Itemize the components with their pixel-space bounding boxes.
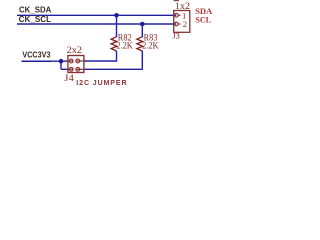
net label CK_SDA	[19, 5, 52, 14]
label R83	[144, 34, 158, 44]
J3 pin 2 number	[183, 19, 187, 29]
wire R83 bottom to J4 pin 4	[84, 51, 143, 70]
connector J3 body	[174, 11, 190, 33]
junction node on CK_SDA	[114, 13, 119, 18]
cropped label fragment above J3	[174, 0, 179, 1]
port label SDA	[195, 6, 213, 16]
junction node VCC3V3	[59, 59, 64, 64]
wire VCC3V3 to J4 pin 1	[52, 60, 69, 62]
svg-text:2: 2	[183, 19, 187, 29]
svg-text:2.2K: 2.2K	[142, 42, 159, 52]
svg-text:I2C JUMPER: I2C JUMPER	[76, 80, 126, 87]
value 2.2K (R83)	[142, 42, 159, 52]
wire from CK_SDA down to R82	[116, 15, 118, 37]
junction node on CK_SCL	[140, 22, 145, 27]
label 2x2 (J4)	[67, 46, 83, 56]
connector J4 body	[68, 56, 84, 73]
svg-text:SCL: SCL	[195, 15, 211, 25]
J3 pin 1	[174, 13, 180, 17]
wire R82 bottom to J4 pin 2	[84, 51, 117, 61]
svg-text:J4: J4	[64, 73, 74, 83]
svg-text:VCC3V3: VCC3V3	[22, 51, 51, 60]
label J4	[64, 73, 74, 83]
label I2C JUMPER	[76, 80, 126, 87]
label R82	[118, 34, 132, 44]
svg-text:1x2: 1x2	[175, 1, 190, 11]
port label SCL	[195, 15, 211, 25]
wire CK_SCL	[17, 23, 176, 25]
wire from CK_SCL down to R83	[141, 24, 143, 37]
svg-text:J3: J3	[172, 31, 180, 40]
J3 pin 1 number	[182, 11, 186, 21]
J4 pin 1	[68, 59, 73, 63]
wire CK_SDA	[17, 14, 176, 16]
svg-text:CK_SCL: CK_SCL	[19, 15, 52, 24]
label J3	[172, 31, 180, 40]
value 2.2K (R82)	[116, 42, 133, 52]
J4 pin 3	[68, 67, 73, 71]
resistor R83	[137, 37, 143, 51]
J4 pin 4	[76, 67, 84, 71]
net label CK_SCL	[19, 15, 52, 24]
resistor R82	[111, 37, 117, 51]
wire junction down to J4 pin 3	[61, 61, 68, 69]
power symbol VCC3V3	[22, 51, 52, 62]
J3 pin 2	[174, 22, 180, 26]
svg-text:2.2K: 2.2K	[116, 42, 133, 52]
svg-text:2x2: 2x2	[67, 46, 83, 56]
J4 pin 2	[76, 59, 84, 63]
label 1x2 (J3)	[175, 1, 190, 11]
svg-text:CK_SDA: CK_SDA	[19, 5, 52, 14]
